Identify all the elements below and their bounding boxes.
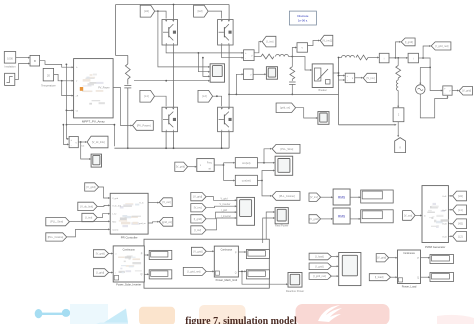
- svg-text:wt: wt: [209, 167, 212, 170]
- svg-text:-: -: [71, 144, 72, 147]
- svg-text:[V_inv1]: [V_inv1]: [323, 39, 333, 43]
- svg-text:Freq: Freq: [207, 161, 212, 164]
- svg-text:Power_Solar_Inverter: Power_Solar_Inverter: [116, 282, 141, 286]
- svg-text:[V_dc_link]: [V_dc_link]: [80, 204, 93, 208]
- svg-text:V_dc_link: V_dc_link: [112, 205, 121, 207]
- svg-text:Q: Q: [417, 277, 419, 279]
- svg-text:[H1]: [H1]: [144, 9, 149, 13]
- svg-text:Cosine: Cosine: [112, 229, 119, 231]
- svg-text:[V_grid]: [V_grid]: [96, 252, 105, 256]
- svg-text:[V_grid]: [V_grid]: [310, 217, 319, 221]
- svg-text:sin(wt): sin(wt): [242, 161, 250, 165]
- svg-text:[grid_vs]: [grid_vs]: [280, 106, 290, 110]
- svg-text:Breaker: Breaker: [319, 89, 328, 92]
- svg-text:[I_grid_net]: [I_grid_net]: [313, 274, 326, 278]
- svg-text:[PLL_Cosine]: [PLL_Cosine]: [279, 194, 295, 198]
- svg-text:-: -: [444, 92, 445, 95]
- svg-text:[I_grid]: [I_grid]: [405, 40, 413, 44]
- svg-text:Continuous: Continuous: [403, 252, 415, 255]
- svg-text:I_inv: I_inv: [112, 214, 117, 216]
- svg-text:[V_grid]: [V_grid]: [462, 89, 471, 93]
- svg-text:[L1]: [L1]: [144, 94, 149, 98]
- svg-text:[V_grid]: [V_grid]: [86, 185, 95, 189]
- svg-text:[I_grid]: [I_grid]: [194, 217, 202, 221]
- svg-text:RMS: RMS: [338, 196, 345, 200]
- svg-text:1000: 1000: [7, 57, 13, 61]
- svg-text:Continuous: Continuous: [221, 248, 233, 251]
- svg-text:I_inverter: I_inverter: [221, 215, 232, 218]
- svg-text:[I_grid]: [I_grid]: [96, 271, 104, 275]
- svg-text:figure 7. simulation model: figure 7. simulation model: [185, 316, 297, 324]
- svg-text:RMS: RMS: [338, 215, 345, 219]
- svg-text:[I_inv]: [I_inv]: [85, 216, 92, 220]
- svg-text:[V_inv]: [V_inv]: [194, 206, 202, 210]
- svg-text:Temperature: Temperature: [41, 84, 56, 88]
- svg-text:Continuous: Continuous: [123, 248, 136, 251]
- svg-text:-: -: [347, 80, 348, 83]
- svg-text:[PV_Power]: [PV_Power]: [137, 123, 151, 127]
- svg-text:[L2]: [L2]: [202, 94, 207, 98]
- svg-text:Q: Q: [141, 273, 143, 276]
- svg-text:Reactive Power: Reactive Power: [286, 289, 304, 293]
- svg-text:-: -: [245, 57, 246, 60]
- svg-text:Power_Mach_Grid: Power_Mach_Grid: [216, 278, 238, 282]
- svg-text:[V_grid]: [V_grid]: [176, 165, 185, 169]
- svg-text:x: x: [34, 59, 36, 63]
- svg-text:cos(wt): cos(wt): [242, 179, 251, 183]
- svg-text:[H2]: [H2]: [198, 9, 203, 13]
- svg-text:I_grid: I_grid: [221, 209, 228, 212]
- svg-text:[V_inv]: [V_inv]: [310, 195, 318, 199]
- svg-text:20: 20: [47, 73, 51, 77]
- svg-text:[I_load]: [I_load]: [375, 275, 384, 279]
- svg-text:[PLL_Sine]: [PLL_Sine]: [281, 147, 294, 151]
- svg-text:PV_Power: PV_Power: [98, 87, 109, 90]
- svg-text:PWM Generator: PWM Generator: [425, 245, 445, 249]
- svg-text:V_inverter: V_inverter: [220, 203, 231, 206]
- svg-text:[I_grid_net]: [I_grid_net]: [187, 269, 200, 273]
- svg-text:[I_grid_net]: [I_grid_net]: [435, 44, 448, 48]
- svg-text:grid_on: grid_on: [139, 223, 146, 225]
- svg-text:Power_Load: Power_Load: [402, 285, 417, 289]
- svg-text:MPPT_PV_Array: MPPT_PV_Array: [82, 120, 105, 124]
- svg-text:[PLL_Cosine]: [PLL_Cosine]: [48, 235, 64, 239]
- svg-text:V_grid: V_grid: [112, 198, 118, 200]
- svg-text:[V_out]: [V_out]: [162, 200, 170, 204]
- svg-text:[L1]: [L1]: [458, 208, 463, 212]
- svg-text:PR Controller: PR Controller: [121, 235, 138, 239]
- svg-text:Q: Q: [235, 273, 237, 275]
- svg-text:[I_load]: [I_load]: [315, 255, 324, 259]
- svg-text:[I_grid]: [I_grid]: [316, 264, 324, 268]
- svg-text:[grid_on]: [grid_on]: [162, 220, 172, 224]
- svg-text:[V_inv]: [V_inv]: [367, 76, 375, 80]
- svg-text:V_m: V_m: [139, 203, 143, 205]
- svg-text:[V_grid]: [V_grid]: [193, 195, 202, 199]
- svg-text:[V_dc_link]: [V_dc_link]: [92, 140, 105, 144]
- svg-text:[I_inv]: [I_inv]: [194, 228, 201, 232]
- svg-text:[H2]: [H2]: [458, 222, 463, 226]
- svg-text:[PLL_Sine]: [PLL_Sine]: [50, 220, 63, 224]
- svg-text:Real Power: Real Power: [275, 224, 289, 228]
- svg-text:V_grid: V_grid: [221, 197, 229, 200]
- svg-text:Discrete: Discrete: [297, 14, 308, 18]
- svg-text:[V_grid]: [V_grid]: [377, 256, 386, 260]
- svg-text:[V_grid]: [V_grid]: [194, 249, 203, 253]
- svg-text:1e-06 s.: 1e-06 s.: [298, 19, 308, 23]
- svg-text:[I_inv]: [I_inv]: [266, 40, 273, 44]
- svg-text:Insolation: Insolation: [4, 64, 16, 68]
- svg-text:[L2]: [L2]: [458, 234, 463, 238]
- svg-text:[H1]: [H1]: [458, 194, 463, 198]
- svg-text:[V_out]: [V_out]: [404, 213, 412, 217]
